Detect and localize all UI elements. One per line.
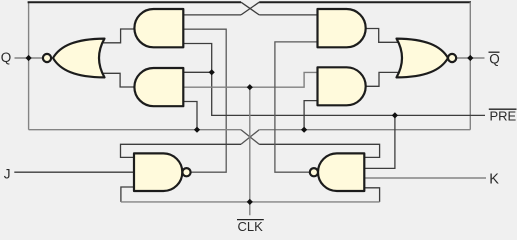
junction Qbar feedback to AND4 bbox=[301, 127, 307, 133]
wire CLK horizontal to AND2 middle input and AND4 top input bbox=[183, 72, 317, 87]
wire NAND K bottom input wrap bbox=[364, 188, 379, 202]
wire Q feedback horizontal left bbox=[29, 129, 241, 131]
wire NAND J bottom input wrap bbox=[121, 187, 134, 202]
wire top crossover diagonal A bbox=[241, 2, 259, 15]
label Qbar bbox=[489, 52, 500, 67]
label PRE bbox=[489, 109, 517, 124]
wire NOR1 bottom input to AND2 output bbox=[100, 73, 136, 87]
AND gate G3 (top right, faces right) bbox=[318, 9, 366, 47]
wire top bus left (Q to crossover) bbox=[28, 1, 241, 3]
svg-text:CLK: CLK bbox=[238, 219, 264, 231]
AND gate G6 (bottom left, faces left) bbox=[134, 68, 183, 106]
junction CLK top bbox=[247, 84, 253, 90]
wire AND4 bottom input down to Qbar feedback bbox=[304, 101, 317, 130]
wire center crossover diagonal Qbar bbox=[241, 130, 259, 145]
wire AND1 top input from crossover bbox=[183, 14, 241, 16]
NAND gate G2 (K input, faces left) bbox=[310, 153, 365, 191]
junction CLK bottom bbox=[247, 199, 253, 205]
svg-text:Q: Q bbox=[489, 52, 500, 67]
wire center crossover diagonal Q bbox=[241, 130, 259, 145]
NOR gate G8 (Qbar output, faces right) bbox=[397, 39, 457, 78]
junction Q feedback to AND2 bbox=[194, 127, 200, 133]
wire CLK bottom horizontal bbox=[121, 201, 380, 203]
wire NAND J top input wrap to crossover bbox=[121, 144, 242, 157]
wire Q lead bbox=[15, 57, 43, 59]
wire Qbar vertical riser x=470.3 bbox=[469, 2, 471, 130]
wire AND4 output to NOR2 bottom input bbox=[366, 72, 402, 86]
wire NAND K output to AND3 bottom input bbox=[275, 42, 318, 172]
NOR gate G7 (Q output, faces left) bbox=[43, 39, 105, 78]
svg-text:Q: Q bbox=[1, 50, 12, 65]
svg-text:J: J bbox=[4, 166, 11, 181]
wire K lead bbox=[364, 177, 486, 179]
junction Qbar node bbox=[467, 55, 473, 61]
wire AND3 top input from crossover bbox=[259, 14, 317, 16]
NAND gate G1 (J input, faces right) bbox=[134, 153, 191, 191]
wire AND3 output to NOR2 top input bbox=[366, 29, 402, 43]
AND gate G5 (top left, faces left) bbox=[134, 9, 183, 47]
wire NOR1 top input to AND1 output bbox=[100, 29, 137, 43]
wire Q vertical riser x=28.6 bbox=[28, 2, 30, 130]
svg-text:K: K bbox=[489, 171, 499, 187]
wire AND1 bottom input down to PRE line bbox=[183, 44, 485, 116]
wire Qbar feedback horizontal right bbox=[259, 129, 470, 131]
label CLK bbox=[237, 219, 264, 234]
junction Q node bbox=[26, 55, 32, 61]
svg-text:PRE: PRE bbox=[490, 109, 517, 124]
wire Qbar lead bbox=[456, 57, 485, 59]
wire AND1 middle input to NAND J output bbox=[183, 29, 226, 172]
junction PRE to AND1/AND2 bbox=[209, 69, 215, 75]
wire NAND K PRE input bbox=[364, 115, 395, 168]
wire AND2 top input stub bbox=[183, 71, 211, 73]
wire AND2 bottom input down to Q feedback bbox=[183, 102, 197, 130]
AND gate G4 (bottom right, faces right) bbox=[318, 67, 366, 105]
wire J lead bbox=[14, 171, 134, 173]
wire Q feedback to NAND K top input bbox=[259, 144, 379, 157]
wire CLK vertical bbox=[249, 87, 251, 215]
wire top crossover diagonal B bbox=[241, 2, 259, 15]
wire top bus right (crossover to Qbar riser) bbox=[259, 1, 471, 3]
junction PRE to NAND K bbox=[392, 112, 398, 118]
